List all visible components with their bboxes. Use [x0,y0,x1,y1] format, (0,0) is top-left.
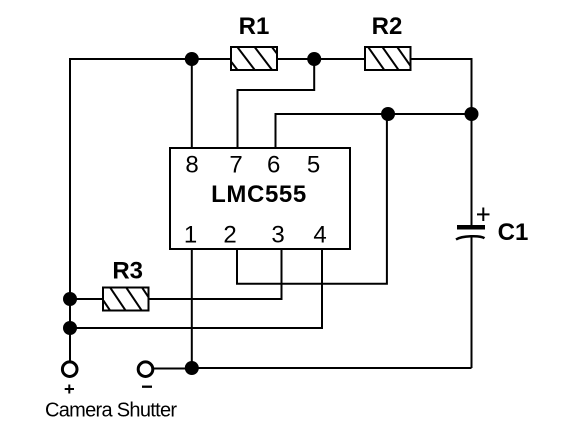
terminal: minus camera shutter [138,362,153,377]
wire: left rail vertical [69,58,71,362]
node: junction dot pin8 / top rail [185,52,199,66]
svg-text:R1: R1 [239,13,270,40]
capacitor C1 [456,225,485,240]
wire: bottom rail [192,367,472,369]
terminal: plus camera shutter [62,362,77,377]
polarity plus sign for C1 [477,208,490,222]
wire: pin 3 vertical to R3 line [149,249,282,299]
polarity plus sign terminal [65,385,74,394]
svg-text:5: 5 [307,152,320,179]
wire: pin 7 jog from R1-R2 node [238,59,315,148]
wire: C1 bottom lead up from bottom rail [471,238,473,369]
wire: top rail left segment [69,58,231,60]
svg-text:6: 6 [267,152,280,179]
svg-text:Camera Shutter: Camera Shutter [45,400,177,422]
svg-text:2: 2 [223,222,236,249]
svg-text:LMC555: LMC555 [211,181,307,208]
node: junction dot pin2 riser on pin6 line [381,107,395,121]
resistor R3 [95,288,158,311]
resistor R1 [220,47,289,70]
svg-text:8: 8 [185,152,198,179]
wire: pin 2 jog up to pin6 line [237,114,387,284]
svg-text:7: 7 [229,152,242,179]
wire: pin 1 vertical to bottom rail [191,249,193,368]
op-amp U1: IC LMC555 body [170,148,350,249]
wire: top rail between R1 and R2 [277,58,365,60]
svg-text:R3: R3 [112,258,143,285]
svg-text:C1: C1 [498,219,529,246]
svg-text:4: 4 [313,222,326,249]
wire: R2 right lead to right rail corner [410,59,472,114]
svg-text:R2: R2 [372,13,403,40]
wire: pin 6 horizontal to right rail [276,114,472,148]
svg-text:3: 3 [271,222,284,249]
node: junction dot pin4 / left rail [63,321,77,335]
node: junction dot right rail on pin6 line [465,107,479,121]
wire: pin 8 vertical [191,59,193,148]
svg-text:1: 1 [184,222,197,249]
node: junction dot R1-R2 / pin7 [307,52,321,66]
wire: minus terminal to pin1 node [154,368,192,370]
resistor R2 [365,47,413,70]
polarity minus sign terminal [142,386,152,388]
wire: R3 left lead [70,298,103,300]
node: junction dot R3 / left rail [63,292,77,306]
wire: pin 4 down and left to rail [70,249,322,328]
node: junction dot pin1 / bottom rail [185,361,199,375]
wire: right rail down to C1 top [471,114,473,226]
